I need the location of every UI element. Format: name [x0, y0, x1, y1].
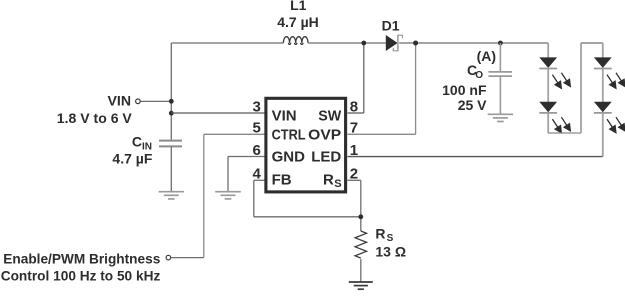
svg-text:(A): (A)	[477, 48, 496, 64]
svg-text:3: 3	[252, 98, 260, 115]
svg-text:100 nF: 100 nF	[442, 82, 487, 98]
svg-text:D1: D1	[382, 18, 400, 34]
svg-text:S: S	[334, 178, 341, 190]
svg-text:SW: SW	[318, 108, 342, 125]
svg-text:CTRL: CTRL	[272, 126, 306, 143]
svg-text:Control 100 Hz to 50 kHz: Control 100 Hz to 50 kHz	[1, 267, 161, 283]
svg-text:1.8 V to 6 V: 1.8 V to 6 V	[57, 110, 133, 126]
svg-text:LED: LED	[311, 149, 341, 166]
svg-text:L1: L1	[290, 0, 307, 13]
svg-text:2: 2	[350, 166, 358, 183]
svg-text:GND: GND	[272, 149, 306, 166]
svg-text:4.7 µH: 4.7 µH	[277, 14, 319, 30]
svg-text:4.7 µF: 4.7 µF	[112, 151, 152, 167]
svg-text:6: 6	[252, 142, 260, 159]
svg-text:Enable/PWM Brightness: Enable/PWM Brightness	[3, 250, 160, 266]
svg-text:OVP: OVP	[308, 126, 341, 143]
svg-text:S: S	[387, 233, 394, 244]
svg-text:5: 5	[252, 120, 260, 137]
svg-text:13 Ω: 13 Ω	[375, 244, 406, 260]
svg-text:1: 1	[350, 142, 358, 159]
svg-text:8: 8	[350, 98, 358, 115]
svg-text:FB: FB	[272, 171, 292, 188]
svg-text:VIN: VIN	[272, 108, 297, 125]
svg-text:O: O	[475, 70, 483, 81]
svg-text:7: 7	[350, 120, 358, 137]
svg-text:R: R	[323, 171, 334, 188]
svg-text:VIN: VIN	[108, 93, 132, 109]
svg-text:4: 4	[252, 166, 261, 183]
svg-text:R: R	[375, 225, 385, 241]
svg-text:25 V: 25 V	[458, 97, 487, 113]
svg-text:C: C	[132, 134, 142, 150]
